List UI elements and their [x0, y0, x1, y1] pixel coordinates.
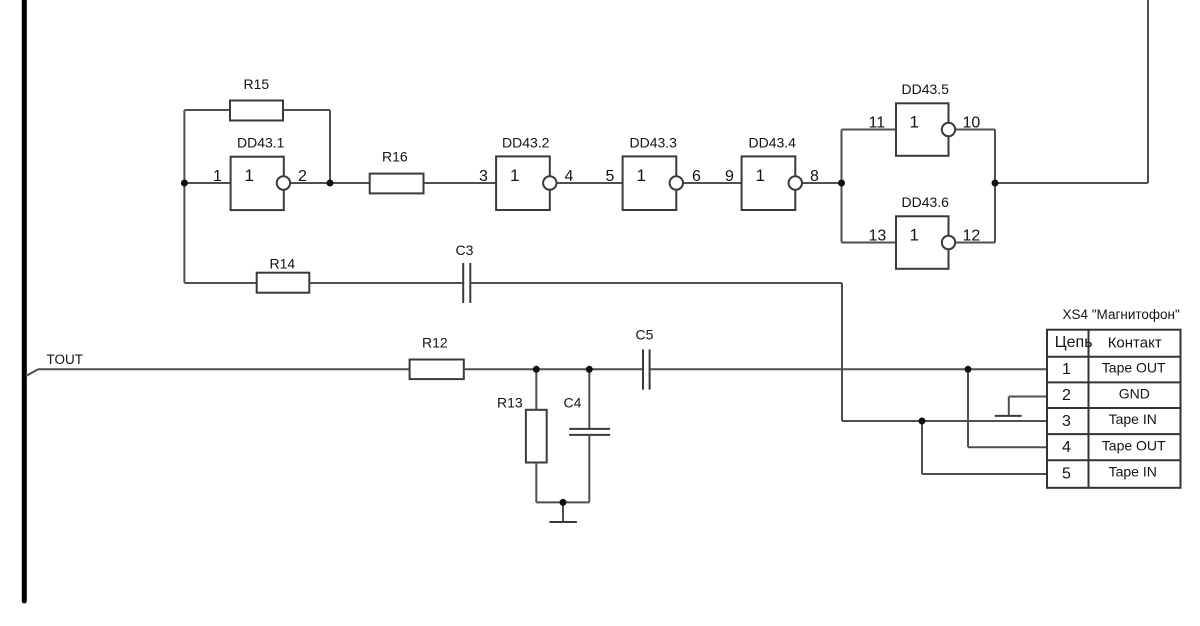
node: DD43.1 input junction: [181, 180, 188, 187]
capacitor C5: [642, 349, 644, 389]
capacitor C3: [462, 263, 464, 303]
svg-text:C4: C4: [564, 395, 582, 411]
wire: pin5 vertical branch: [921, 421, 923, 474]
wire: pin4 vertical branch: [967, 369, 969, 447]
svg-text:DD43.5: DD43.5: [902, 81, 950, 97]
svg-text:Tape IN: Tape IN: [1109, 411, 1157, 427]
svg-text:6: 6: [692, 168, 701, 185]
inversion bubble DD43.1: [277, 176, 290, 189]
svg-text:R15: R15: [244, 76, 270, 92]
inverter DD43.2 box: [496, 156, 550, 210]
node: pin5 branch: [919, 418, 926, 425]
svg-text:8: 8: [810, 168, 819, 185]
svg-text:9: 9: [725, 168, 734, 185]
svg-text:R16: R16: [382, 149, 408, 165]
inversion bubble DD43.2: [543, 176, 556, 189]
wire: R15 left lead: [184, 109, 230, 111]
svg-text:1: 1: [756, 166, 765, 185]
svg-text:Tape OUT: Tape OUT: [1102, 437, 1166, 453]
wire: left vertical from R15 to R14: [183, 110, 185, 283]
svg-text:4: 4: [1062, 439, 1071, 456]
wire: C3 net vertical down: [841, 283, 843, 421]
inversion bubble DD43.6: [942, 236, 955, 249]
svg-text:2: 2: [1062, 387, 1071, 404]
wire: DD43.5 input: [842, 129, 897, 131]
node: C4 tap: [586, 366, 593, 373]
svg-text:TOUT: TOUT: [47, 352, 84, 367]
wire: DD43.6 input: [842, 242, 897, 244]
svg-text:1: 1: [910, 113, 919, 132]
svg-text:3: 3: [1062, 413, 1071, 430]
wire: TOUT entry diagonal: [26, 369, 38, 376]
node: DD43.1 output junction: [327, 180, 334, 187]
wire: DD43.1 input: [184, 182, 230, 184]
wire: R13 top lead: [535, 369, 537, 410]
wire: DD43.1 output to R16: [290, 182, 369, 184]
wire: R12 to C5: [464, 368, 643, 370]
node: pin4 branch: [965, 366, 972, 373]
wire: C4 bottom lead: [588, 435, 590, 503]
svg-text:12: 12: [963, 228, 981, 245]
wire: pin3 line: [842, 420, 1047, 422]
wire: pin4 line: [968, 446, 1047, 448]
wire: pin5 line: [922, 473, 1047, 475]
wire: R15 right vertical down to node: [329, 110, 331, 183]
connector XS4 table frame: [1047, 330, 1181, 488]
resistor R16: [370, 174, 424, 194]
inverter DD43.5 box: [896, 103, 949, 156]
wire: C5 to table pin1: [650, 368, 1047, 370]
op-amp U1: inverter DD43.1 box: [231, 157, 284, 210]
wire: DD43.5 output: [955, 129, 995, 131]
svg-text:DD43.4: DD43.4: [749, 135, 797, 151]
svg-text:1: 1: [245, 166, 254, 185]
svg-text:R13: R13: [497, 395, 523, 411]
svg-text:1: 1: [213, 168, 222, 185]
wire: C3 to right vertical: [470, 282, 842, 284]
wire: merge node to right: [995, 182, 1148, 184]
wire: C4 top lead: [588, 369, 590, 429]
inversion bubble DD43.3: [670, 176, 683, 189]
svg-text:10: 10: [963, 115, 981, 132]
svg-text:DD43.2: DD43.2: [502, 135, 550, 151]
resistor R12: [410, 360, 464, 380]
svg-text:Контакт: Контакт: [1108, 335, 1162, 352]
resistor R13: [526, 410, 547, 463]
resistor R15: [230, 101, 283, 121]
wire: R16 to DD43.2: [424, 182, 497, 184]
inverter DD43.4 box: [742, 156, 796, 210]
svg-text:Tape IN: Tape IN: [1109, 464, 1157, 480]
wire: output merge vertical: [994, 130, 996, 243]
svg-text:C3: C3: [456, 242, 474, 258]
wire: DD43.4 output to split node: [802, 182, 842, 184]
svg-text:4: 4: [565, 168, 574, 185]
inverter DD43.6 box: [896, 216, 949, 268]
wire: R14 left lead: [184, 282, 256, 284]
inversion bubble DD43.5: [942, 123, 955, 136]
svg-text:Цепь: Цепь: [1055, 334, 1093, 351]
svg-text:R12: R12: [422, 335, 448, 351]
svg-text:11: 11: [869, 115, 886, 132]
wire: DD43.2 output: [557, 182, 623, 184]
wire: R15 right lead: [283, 109, 330, 111]
svg-text:2: 2: [298, 168, 307, 185]
svg-text:Tape OUT: Tape OUT: [1102, 359, 1166, 375]
node: R13 tap: [533, 366, 540, 373]
svg-text:GND: GND: [1119, 385, 1150, 401]
svg-text:5: 5: [606, 168, 615, 185]
svg-text:R14: R14: [270, 256, 296, 272]
svg-text:1: 1: [637, 166, 646, 185]
svg-text:C5: C5: [636, 327, 654, 343]
svg-text:13: 13: [869, 228, 887, 245]
capacitor C4: [569, 428, 610, 430]
inversion bubble DD43.4: [789, 176, 802, 189]
svg-text:1: 1: [510, 166, 519, 185]
wire: pin2 to ground: [1009, 396, 1047, 398]
wire: R13/C4 bottom join: [536, 501, 589, 503]
ground at pin2: [995, 415, 1022, 417]
resistor R14: [257, 273, 310, 293]
svg-text:XS4 "Магнитофон": XS4 "Магнитофон": [1063, 307, 1180, 322]
svg-text:5: 5: [1062, 465, 1071, 482]
frame border thick line: [22, 0, 27, 601]
svg-text:DD43.1: DD43.1: [237, 135, 285, 151]
svg-text:1: 1: [910, 226, 919, 245]
wire: right vertical to top edge: [1147, 0, 1149, 183]
svg-text:DD43.6: DD43.6: [902, 194, 950, 210]
svg-text:1: 1: [1062, 361, 1071, 378]
svg-text:DD43.3: DD43.3: [630, 135, 678, 151]
node: DD43.5/6 output merge: [992, 180, 999, 187]
inverter DD43.3 box: [623, 156, 677, 210]
svg-text:3: 3: [479, 168, 488, 185]
wire: R13 bottom lead: [535, 463, 537, 503]
wire: split vertical: [841, 130, 843, 243]
ground: [549, 521, 577, 523]
wire: TOUT to R12: [38, 368, 410, 370]
node: ground join: [560, 499, 567, 506]
wire: DD43.6 output: [955, 242, 995, 244]
node: DD43.5/6 input split: [838, 180, 845, 187]
wire: R14 to C3: [309, 282, 463, 284]
wire: DD43.3 output: [683, 182, 742, 184]
wire: ground stub: [562, 502, 564, 521]
